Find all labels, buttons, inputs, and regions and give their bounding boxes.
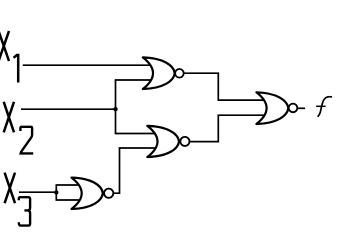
nor-gate U4 (output gate, drives f) [256, 92, 288, 124]
inversion bubble of U2 [180, 137, 189, 146]
wire: X1 input to NOR gate U1 upper input [23, 64, 152, 66]
inversion bubble of U4 [289, 104, 298, 113]
inversion bubble of U3 [104, 189, 113, 198]
wire: U2 output, up to U4 lower input [189, 115, 266, 141]
wire: X3 input horizontal [19, 191, 57, 193]
wire: vertical branch at X2 junction [115, 80, 117, 134]
node: junction dot on X3 line [54, 190, 58, 194]
label X1: subscript 1 [14, 54, 19, 83]
inversion bubble of U1 [175, 69, 184, 78]
wire: branch to U3 lower input [56, 199, 83, 201]
wire: U4 output stub to f [297, 107, 305, 109]
wire: branch to U1 lower input [115, 79, 153, 81]
wire: branch to U3 upper input [56, 184, 83, 186]
nor-gate U2 (middle, inputs X2 branch and U3 output) [147, 126, 179, 157]
nor-gate U3 (bottom-left, both inputs X3) [72, 178, 103, 209]
wire: X2 input horizontal [21, 108, 116, 110]
label X1: letter X [0, 31, 18, 83]
label X2: subscript 2 [20, 127, 33, 154]
nor-gate U1 (top, inputs X1 and X2) [143, 57, 175, 89]
wire: U3 output up to U2 lower input [113, 148, 158, 193]
label X3: subscript 3 [19, 197, 30, 225]
wire: branch to U2 upper input [115, 133, 158, 135]
label X2: letter X [4, 102, 34, 154]
wire: vertical branch at X3 junction [55, 185, 57, 200]
label f: output net name [316, 97, 332, 117]
wire: U1 output, down to U4 upper input [184, 73, 266, 100]
node: junction dot on X2 line [113, 107, 117, 111]
label X3: letter X [5, 173, 31, 226]
